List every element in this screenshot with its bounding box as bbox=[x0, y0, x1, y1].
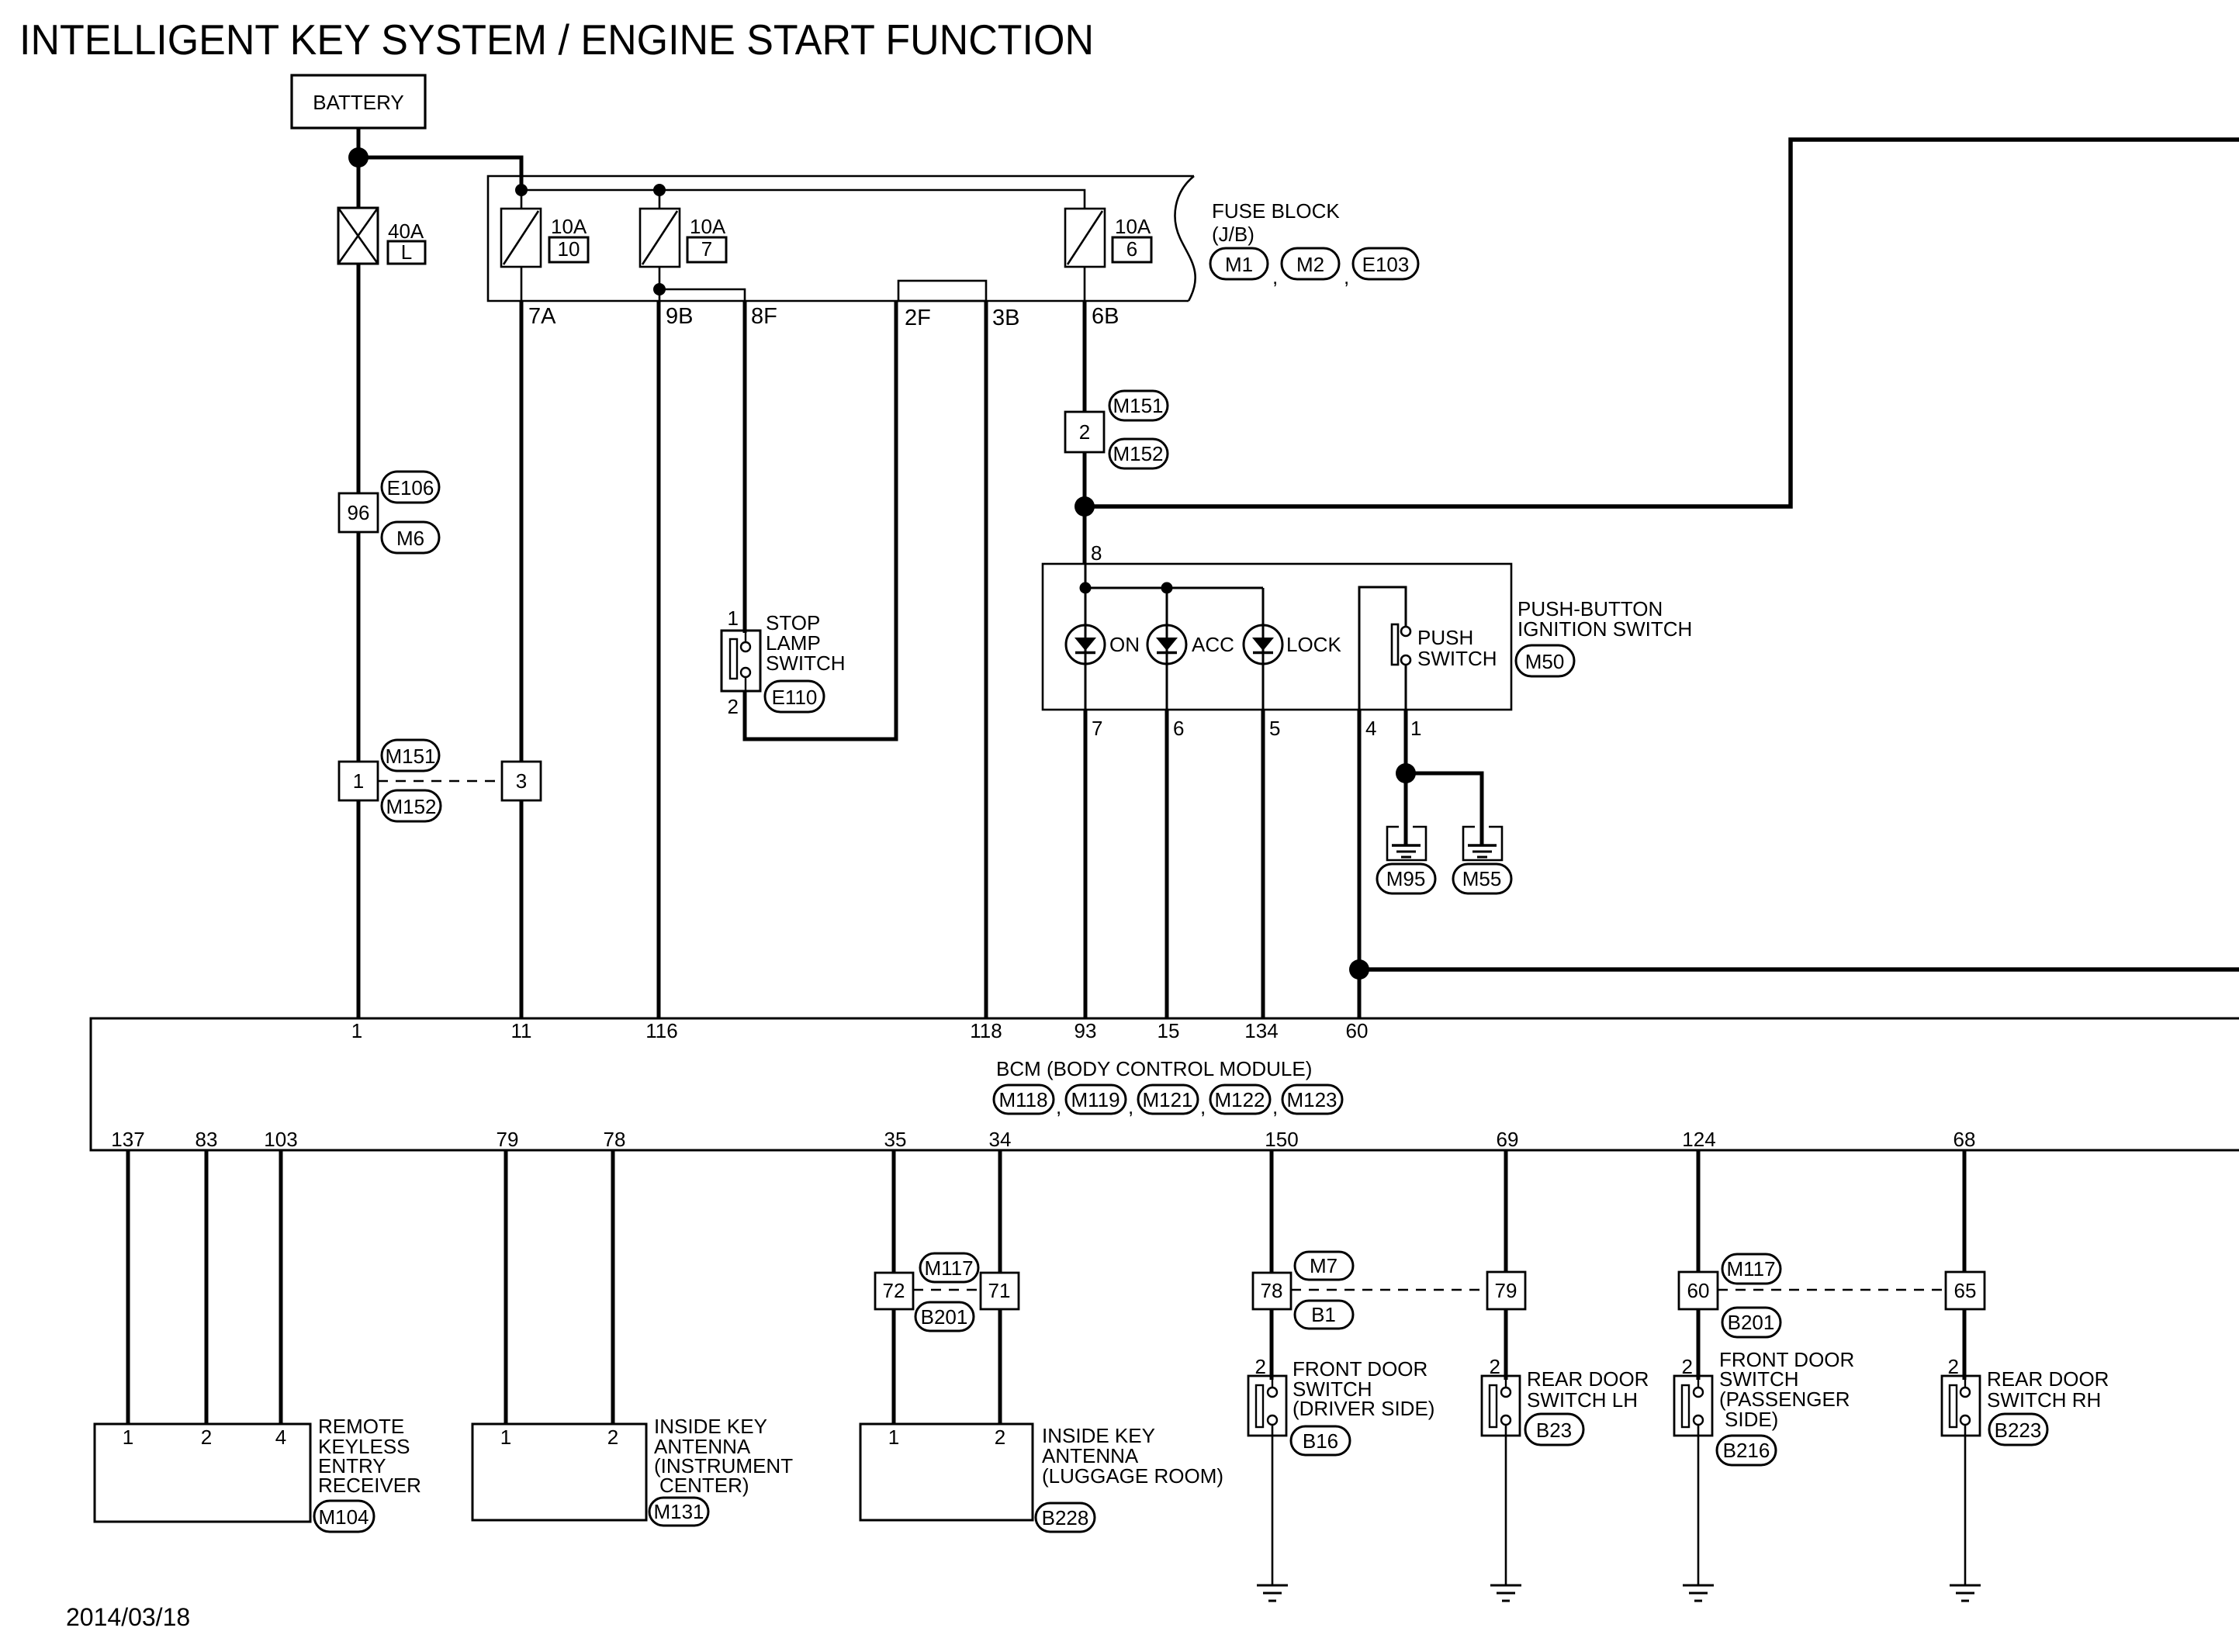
svg-text:15: 15 bbox=[1158, 1019, 1180, 1042]
node battery junction bbox=[348, 147, 369, 168]
node pin 4 branch bbox=[1349, 959, 1369, 980]
svg-text:L: L bbox=[401, 240, 412, 264]
svg-text:M118: M118 bbox=[998, 1088, 1047, 1111]
svg-text:72: 72 bbox=[883, 1279, 905, 1302]
svg-text:B223: B223 bbox=[1995, 1419, 2042, 1442]
connector 65 bbox=[1946, 1272, 1985, 1309]
node feed at fuse 7 bbox=[653, 184, 666, 196]
wire BCM 34 to connector 71 bbox=[998, 1150, 1002, 1273]
connector 71 bbox=[981, 1273, 1019, 1309]
connector M7 bbox=[1295, 1252, 1353, 1280]
front door switch driver side B16 bbox=[1248, 1376, 1286, 1436]
svg-text:2: 2 bbox=[728, 695, 739, 718]
rear door switch RH B223 bbox=[1942, 1376, 1980, 1436]
svg-text:REAR DOOR: REAR DOOR bbox=[1987, 1367, 2109, 1391]
wire BCM 137 to receiver pin 1 bbox=[126, 1150, 130, 1424]
wire 40A to connector 96 bbox=[357, 264, 361, 493]
svg-text:CENTER): CENTER) bbox=[659, 1474, 749, 1497]
svg-text:B228: B228 bbox=[1042, 1506, 1089, 1529]
connector M1 bbox=[1210, 248, 1268, 279]
svg-text:2: 2 bbox=[1948, 1355, 1959, 1378]
svg-text:78: 78 bbox=[604, 1128, 626, 1151]
svg-text:118: 118 bbox=[970, 1019, 1002, 1042]
svg-text:69: 69 bbox=[1497, 1128, 1519, 1151]
LED LOCK bbox=[1244, 625, 1282, 664]
svg-text:,: , bbox=[1344, 265, 1349, 289]
connector M131 bbox=[649, 1498, 708, 1526]
svg-text:(DRIVER SIDE): (DRIVER SIDE) bbox=[1293, 1397, 1434, 1420]
svg-text:M117: M117 bbox=[1726, 1257, 1775, 1280]
connector B1 bbox=[1295, 1301, 1353, 1329]
svg-text:ACC: ACC bbox=[1192, 633, 1234, 656]
svg-text:3B: 3B bbox=[992, 306, 1019, 330]
connector M122 bbox=[1210, 1085, 1270, 1114]
svg-text:BATTERY: BATTERY bbox=[313, 91, 404, 114]
wire 2 to ignition switch bbox=[1083, 452, 1087, 565]
wire 3B to BCM pin 118 bbox=[985, 301, 988, 1018]
wire BCM 79 to antenna pin 1 bbox=[504, 1150, 508, 1424]
svg-text:60: 60 bbox=[1346, 1019, 1369, 1042]
svg-text:ON: ON bbox=[1109, 633, 1140, 656]
svg-text:150: 150 bbox=[1265, 1128, 1298, 1151]
wire B16 to ground bbox=[1272, 1425, 1274, 1585]
svg-text:,: , bbox=[1200, 1095, 1206, 1118]
svg-text:6: 6 bbox=[1173, 717, 1184, 740]
svg-text:FUSE BLOCK: FUSE BLOCK bbox=[1212, 199, 1340, 223]
wire branch to M55 ground bbox=[1406, 773, 1482, 845]
wire junction down to fusible link bbox=[357, 157, 361, 209]
connector B23 bbox=[1525, 1414, 1583, 1445]
ground M55 bbox=[1463, 827, 1502, 860]
connector M104 bbox=[314, 1501, 374, 1532]
wire 71 to antenna pin 2 bbox=[998, 1309, 1002, 1424]
wire branch 8F inside block bbox=[659, 289, 745, 301]
connector B16 bbox=[1291, 1426, 1350, 1455]
remote keyless entry receiver M104 bbox=[95, 1424, 310, 1522]
connector 96 bbox=[339, 493, 378, 532]
wire battery to junction bbox=[357, 128, 361, 157]
svg-text:M117: M117 bbox=[924, 1256, 973, 1280]
svg-text:E110: E110 bbox=[772, 686, 818, 709]
connector B201 bbox=[915, 1302, 974, 1331]
ground B216 bbox=[1683, 1585, 1714, 1587]
wire BCM 83 to receiver pin 2 bbox=[205, 1150, 209, 1424]
wire fuse 6 to block bottom bbox=[1084, 267, 1086, 301]
svg-text:M122: M122 bbox=[1214, 1088, 1265, 1111]
node fuse 7 branch to 8F bbox=[653, 283, 666, 295]
svg-text:M123: M123 bbox=[1286, 1088, 1337, 1111]
connector M55 bbox=[1453, 864, 1511, 893]
svg-text:4: 4 bbox=[275, 1426, 286, 1449]
wire fuse 10 to block bottom bbox=[521, 267, 523, 301]
svg-text:M6: M6 bbox=[396, 527, 424, 550]
svg-text:116: 116 bbox=[645, 1019, 677, 1042]
svg-text:PUSH: PUSH bbox=[1417, 626, 1473, 649]
connector M152 left bbox=[382, 790, 441, 821]
svg-text:SWITCH: SWITCH bbox=[1417, 647, 1497, 670]
wire dashed 60 to 65 bbox=[1718, 1289, 1946, 1291]
ground M95 bbox=[1387, 827, 1426, 860]
LED ACC bbox=[1147, 625, 1186, 664]
wire 96 to connector 1 bbox=[357, 532, 361, 762]
connector M117 right bbox=[1722, 1254, 1780, 1284]
connector B228 bbox=[1036, 1503, 1095, 1532]
svg-text:M151: M151 bbox=[1113, 394, 1163, 417]
ground B16 bbox=[1257, 1585, 1288, 1587]
svg-text:2: 2 bbox=[1490, 1355, 1500, 1378]
svg-text:9B: 9B bbox=[666, 304, 693, 329]
wire B23 to ground bbox=[1505, 1425, 1507, 1585]
connector M121 bbox=[1138, 1085, 1198, 1114]
connector M152 bbox=[1109, 439, 1168, 468]
svg-text:M95: M95 bbox=[1386, 867, 1426, 890]
connector M151 left bbox=[382, 740, 439, 771]
svg-text:8: 8 bbox=[1091, 541, 1102, 565]
svg-text:2: 2 bbox=[995, 1426, 1005, 1449]
connector M118 bbox=[994, 1085, 1054, 1114]
svg-text:RECEIVER: RECEIVER bbox=[318, 1474, 421, 1497]
svg-text:1: 1 bbox=[728, 607, 739, 630]
wire B223 to ground bbox=[1964, 1425, 1967, 1585]
svg-text:(J/B): (J/B) bbox=[1212, 223, 1254, 246]
svg-text:10: 10 bbox=[558, 237, 580, 261]
svg-text:65: 65 bbox=[1954, 1279, 1977, 1302]
wire BCM 124 to connector 60 bbox=[1697, 1150, 1701, 1272]
connector E106 bbox=[382, 472, 439, 503]
wire pin 6 to BCM 15 bbox=[1165, 710, 1169, 1018]
svg-text:68: 68 bbox=[1954, 1128, 1976, 1151]
connector 1 (M151/M152) bbox=[339, 762, 378, 800]
wire pin 5 to BCM 134 bbox=[1261, 710, 1265, 1018]
svg-text:BCM (BODY CONTROL MODULE): BCM (BODY CONTROL MODULE) bbox=[996, 1057, 1312, 1080]
svg-text:LOCK: LOCK bbox=[1286, 633, 1341, 656]
svg-text:6B: 6B bbox=[1092, 304, 1119, 329]
svg-text:6: 6 bbox=[1126, 237, 1137, 261]
svg-text:10A: 10A bbox=[1115, 215, 1151, 238]
wire pin 4 branch right bbox=[1359, 967, 2239, 972]
svg-text:10A: 10A bbox=[551, 215, 587, 238]
svg-text:60: 60 bbox=[1687, 1279, 1710, 1302]
ground B23 bbox=[1490, 1585, 1521, 1587]
push switch symbol bbox=[1359, 587, 1406, 710]
connector M119 bbox=[1066, 1085, 1126, 1114]
connector B201 right bbox=[1722, 1308, 1780, 1337]
node 6B branch bbox=[1075, 496, 1095, 517]
svg-text:B23: B23 bbox=[1536, 1419, 1572, 1442]
svg-text:E106: E106 bbox=[387, 476, 434, 499]
svg-text:1: 1 bbox=[353, 769, 364, 793]
fusible link 40A L bbox=[338, 208, 378, 264]
svg-text:3: 3 bbox=[516, 769, 527, 793]
svg-text:7: 7 bbox=[701, 237, 712, 261]
front door switch passenger side B216 bbox=[1674, 1376, 1712, 1436]
wire stop lamp loop to 2F bbox=[745, 301, 896, 739]
wire pin 7 to BCM 93 bbox=[1084, 710, 1088, 1018]
svg-text:2: 2 bbox=[1255, 1355, 1266, 1378]
svg-text:79: 79 bbox=[1495, 1279, 1517, 1302]
svg-text:M152: M152 bbox=[386, 795, 436, 818]
wire 6B branch to top right bbox=[1085, 140, 2239, 506]
svg-text:2: 2 bbox=[201, 1426, 212, 1449]
svg-text:40A: 40A bbox=[388, 219, 424, 243]
wire 78 to door switch B16 bbox=[1270, 1309, 1274, 1380]
svg-text:M151: M151 bbox=[385, 745, 435, 768]
svg-text:M7: M7 bbox=[1310, 1254, 1338, 1277]
svg-text:REAR DOOR: REAR DOOR bbox=[1527, 1367, 1649, 1391]
svg-text:SWITCH LH: SWITCH LH bbox=[1527, 1388, 1638, 1412]
connector 3 bbox=[502, 762, 541, 800]
svg-text:1: 1 bbox=[351, 1019, 362, 1042]
wire 9B to BCM pin 116 bbox=[657, 301, 661, 1018]
connector E103 bbox=[1353, 248, 1418, 279]
wire 8F to stop lamp switch bbox=[743, 301, 747, 633]
wire BCM 103 to receiver pin 4 bbox=[279, 1150, 283, 1424]
connector M2 bbox=[1282, 248, 1339, 279]
connector M123 bbox=[1282, 1085, 1342, 1114]
svg-text:SWITCH RH: SWITCH RH bbox=[1987, 1388, 2101, 1412]
svg-text:83: 83 bbox=[196, 1128, 218, 1151]
svg-text:34: 34 bbox=[989, 1128, 1012, 1151]
svg-text:B216: B216 bbox=[1723, 1439, 1770, 1462]
connector M95 bbox=[1377, 864, 1435, 893]
rear door switch LH B23 bbox=[1482, 1376, 1520, 1436]
wire 72 to antenna pin 1 bbox=[892, 1309, 896, 1424]
node LED bus at ON bbox=[1080, 582, 1092, 594]
svg-text:2: 2 bbox=[607, 1426, 618, 1449]
svg-text:5: 5 bbox=[1269, 717, 1280, 740]
wire 65 to door switch B223 bbox=[1963, 1309, 1967, 1380]
svg-text:IGNITION SWITCH: IGNITION SWITCH bbox=[1517, 617, 1692, 641]
wire 60 to door switch B216 bbox=[1697, 1309, 1701, 1380]
svg-text:7: 7 bbox=[1092, 717, 1102, 740]
svg-text:124: 124 bbox=[1682, 1128, 1715, 1151]
connector 2 (M151/M152) bbox=[1065, 412, 1104, 452]
wire feed to fuse 7 bbox=[659, 190, 661, 209]
svg-text:10A: 10A bbox=[690, 215, 726, 238]
ground B223 bbox=[1950, 1585, 1981, 1587]
wire BCM 35 to connector 72 bbox=[892, 1150, 896, 1273]
svg-text:(LUGGAGE ROOM): (LUGGAGE ROOM) bbox=[1042, 1464, 1223, 1488]
svg-text:M1: M1 bbox=[1225, 253, 1253, 276]
fuse 10A 6 bbox=[1065, 209, 1105, 267]
svg-text:M119: M119 bbox=[1071, 1088, 1119, 1111]
connector M117 bbox=[920, 1253, 978, 1282]
svg-text:,: , bbox=[1272, 1095, 1278, 1118]
svg-text:B201: B201 bbox=[1728, 1311, 1775, 1334]
connector 78 bbox=[1253, 1273, 1291, 1309]
wire fuse 7 to block bottom bbox=[659, 267, 661, 301]
svg-text:1: 1 bbox=[123, 1426, 133, 1449]
connector B216 bbox=[1717, 1436, 1776, 1465]
node pin 1 ground split bbox=[1396, 763, 1416, 783]
svg-text:E103: E103 bbox=[1362, 253, 1410, 276]
wire junction to fuse block feed bbox=[358, 157, 521, 190]
wire BCM 150 to connector 78 bbox=[1270, 1150, 1274, 1273]
wire dashed 1 to 3 bbox=[378, 780, 502, 783]
wire 79 to door switch B23 bbox=[1504, 1309, 1508, 1380]
inside key antenna instrument center M131 bbox=[472, 1424, 646, 1520]
node LED bus at ACC bbox=[1161, 582, 1173, 594]
wire 1 to BCM pin 1 bbox=[357, 800, 361, 1018]
svg-text:35: 35 bbox=[884, 1128, 907, 1151]
wire pin 1 to grounds bbox=[1404, 710, 1408, 845]
svg-text:11: 11 bbox=[511, 1019, 532, 1042]
wire LOCK branch bbox=[1262, 588, 1265, 710]
svg-text:2014/03/18: 2014/03/18 bbox=[66, 1603, 190, 1631]
connector M50 bbox=[1516, 645, 1574, 676]
svg-text:SIDE): SIDE) bbox=[1725, 1408, 1778, 1431]
wire 3 to BCM pin 11 bbox=[520, 800, 524, 1018]
svg-text:4: 4 bbox=[1365, 717, 1376, 740]
fuse block feed bus wire bbox=[521, 190, 1085, 209]
svg-text:79: 79 bbox=[497, 1128, 519, 1151]
svg-text:1: 1 bbox=[1410, 717, 1421, 740]
svg-text:INTELLIGENT KEY SYSTEM / ENGIN: INTELLIGENT KEY SYSTEM / ENGINE START FU… bbox=[19, 16, 1094, 64]
svg-text:96: 96 bbox=[348, 501, 370, 524]
svg-text:M2: M2 bbox=[1296, 253, 1324, 276]
connector E110 bbox=[765, 681, 824, 712]
svg-text:103: 103 bbox=[264, 1128, 297, 1151]
svg-text:2: 2 bbox=[1079, 420, 1090, 444]
connector 72 bbox=[875, 1273, 913, 1309]
wire 6B to connector 2 bbox=[1083, 301, 1087, 412]
connector B223 bbox=[1989, 1414, 2047, 1445]
fuse block J/B outline bbox=[488, 176, 1194, 301]
wire dashed 78 to 79 bbox=[1291, 1289, 1487, 1291]
wire pin 4 to BCM 60 bbox=[1358, 710, 1362, 1018]
svg-text:93: 93 bbox=[1075, 1019, 1097, 1042]
connector 60 bbox=[1679, 1272, 1718, 1309]
svg-text:8F: 8F bbox=[751, 304, 777, 329]
wire BCM 69 to connector 79 bbox=[1504, 1150, 1508, 1272]
svg-text:137: 137 bbox=[111, 1128, 144, 1151]
svg-text:M50: M50 bbox=[1525, 650, 1565, 673]
connector bump 2F-3B bbox=[898, 281, 986, 301]
svg-text:2F: 2F bbox=[905, 306, 931, 330]
svg-text:B201: B201 bbox=[921, 1305, 968, 1329]
svg-text:,: , bbox=[1272, 265, 1278, 289]
svg-text:134: 134 bbox=[1244, 1019, 1278, 1042]
svg-text:M104: M104 bbox=[318, 1505, 369, 1529]
wire 7A to connector 3 bbox=[520, 301, 524, 762]
svg-text:M55: M55 bbox=[1462, 867, 1502, 890]
fuse block break curve bbox=[1175, 176, 1196, 301]
svg-text:71: 71 bbox=[988, 1279, 1011, 1302]
svg-text:M131: M131 bbox=[653, 1500, 704, 1523]
wire BCM 78 to antenna pin 2 bbox=[611, 1150, 615, 1424]
wire B216 to ground bbox=[1697, 1425, 1700, 1585]
svg-text:78: 78 bbox=[1261, 1279, 1283, 1302]
node feed at fuse 10 bbox=[515, 184, 528, 196]
svg-text:,: , bbox=[1128, 1095, 1133, 1118]
BCM (body control module) box bbox=[91, 1018, 2239, 1150]
push-button ignition switch box M50 bbox=[1043, 564, 1511, 710]
svg-text:2: 2 bbox=[1682, 1355, 1693, 1378]
svg-text:B16: B16 bbox=[1303, 1429, 1338, 1453]
connector 79 bbox=[1487, 1272, 1525, 1309]
svg-text:7A: 7A bbox=[528, 304, 556, 329]
svg-text:1: 1 bbox=[500, 1426, 511, 1449]
fuse 10A 10 bbox=[501, 209, 541, 267]
svg-text:SWITCH: SWITCH bbox=[766, 651, 846, 675]
connector M6 bbox=[382, 522, 439, 553]
svg-text:1: 1 bbox=[888, 1426, 899, 1449]
svg-text:B1: B1 bbox=[1311, 1303, 1336, 1326]
wire dashed 72 to 71 bbox=[913, 1289, 981, 1291]
inside key antenna luggage room B228 bbox=[860, 1424, 1033, 1520]
svg-text:M152: M152 bbox=[1113, 442, 1163, 465]
LED ON bbox=[1066, 625, 1105, 664]
wire BCM 68 to connector 65 bbox=[1963, 1150, 1967, 1272]
fuse 10A 7 bbox=[640, 209, 680, 267]
stop lamp switch E110 bbox=[722, 631, 760, 691]
battery B1 bbox=[292, 75, 425, 128]
wire feed to fuse 10 bbox=[521, 190, 523, 209]
svg-text:,: , bbox=[1056, 1095, 1061, 1118]
wire ACC branch bbox=[1166, 588, 1168, 710]
wire LED bus bbox=[1085, 565, 1087, 710]
connector M151 bbox=[1109, 391, 1168, 420]
svg-text:M121: M121 bbox=[1142, 1088, 1192, 1111]
